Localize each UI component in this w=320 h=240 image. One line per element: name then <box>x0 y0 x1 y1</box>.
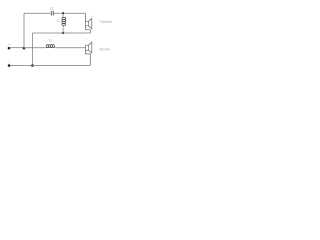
terminal + <box>8 47 11 50</box>
capacitor C1 <box>51 11 53 16</box>
wire top left segment <box>24 12 50 14</box>
terminal - <box>8 64 11 67</box>
wire shunt run y=33 <box>32 32 90 34</box>
svg-text:Woofer: Woofer <box>99 47 111 51</box>
wire riser x=32.4 down to bottom bus <box>31 33 33 66</box>
node junction dot (24,48.4) <box>23 47 26 50</box>
svg-text:–: – <box>8 60 10 64</box>
svg-text:L2: L2 <box>49 39 53 43</box>
wire from terminal + to junction <box>9 47 24 49</box>
wire middle right segment <box>54 47 85 49</box>
speaker tweeter <box>86 13 92 33</box>
svg-text:+: + <box>85 37 87 41</box>
inductor L1 <box>62 13 66 33</box>
svg-text:Tweeter: Tweeter <box>100 20 113 24</box>
inductor L2 <box>46 45 54 48</box>
svg-text:C1: C1 <box>50 7 54 11</box>
node junction dot (32.4,65.5) <box>31 64 34 67</box>
svg-text:L1: L1 <box>57 19 61 23</box>
wire left vertical riser <box>23 13 25 49</box>
speaker woofer <box>86 42 92 65</box>
wire top right segment <box>54 12 86 14</box>
wire bottom bus <box>9 65 90 67</box>
wire middle left segment <box>24 47 46 49</box>
svg-text:+: + <box>92 14 94 18</box>
svg-text:+: + <box>8 43 10 47</box>
node dot bottom of L1 <box>62 32 64 34</box>
node dot top of L1 <box>62 12 64 14</box>
